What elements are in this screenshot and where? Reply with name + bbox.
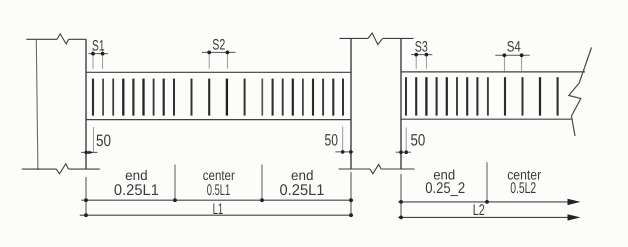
- dimension 50 middle-left: [335, 127, 353, 154]
- L1 overall dimension line: [80, 213, 353, 217]
- L1 zone separator tick at beam start: [85, 177, 87, 217]
- beam 2 stirrups center zone: [505, 77, 558, 115]
- dimension S1: [89, 50, 109, 69]
- L2 zone separator tick at beam start: [400, 174, 402, 219]
- left support bottom line: [22, 168, 57, 170]
- left support right edge: [85, 39, 87, 169]
- svg-text:50: 50: [325, 132, 339, 150]
- svg-text:0.25_2: 0.25_2: [425, 180, 465, 197]
- dimension 50 middle-right: [396, 127, 411, 154]
- L1 zone separator tick 1: [174, 165, 176, 202]
- break mark bottom-left: [56, 164, 68, 174]
- break mark top-left: [57, 34, 69, 44]
- dimension 50 left: [81, 127, 98, 154]
- left support top line: [26, 38, 57, 40]
- middle support bottom line: [339, 168, 371, 170]
- L1 zone separator tick at beam end: [350, 172, 352, 217]
- left support left edge: [36, 39, 38, 170]
- beam 1 stirrups left end zone: [93, 79, 174, 116]
- L2 zone separator tick: [486, 162, 488, 203]
- beam 2 stirrups end zone: [406, 77, 488, 115]
- svg-text:S2: S2: [212, 36, 225, 53]
- svg-text:S3: S3: [415, 38, 428, 55]
- dimension S2: [202, 51, 236, 69]
- L2 overall dimension line: [398, 214, 580, 220]
- dimension S3: [411, 53, 432, 69]
- beam 2 top edge: [401, 71, 585, 73]
- left support bottom line right part: [69, 168, 100, 170]
- dimension S4: [495, 53, 529, 71]
- middle support left edge: [350, 38, 352, 169]
- middle support top line: [340, 37, 369, 39]
- middle support bottom line right part: [381, 168, 414, 170]
- L2 zone dimension line: [398, 199, 580, 205]
- break mark top-middle: [368, 33, 383, 45]
- middle support top line right part: [383, 37, 414, 39]
- svg-text:S4: S4: [507, 38, 521, 55]
- svg-text:50: 50: [96, 132, 111, 150]
- svg-text:0.5L2: 0.5L2: [510, 180, 536, 197]
- beam 1 stirrups center zone: [192, 79, 263, 116]
- L1 zone separator tick 2: [261, 165, 263, 202]
- svg-text:L2: L2: [473, 202, 485, 219]
- beam 1 top edge: [86, 71, 351, 73]
- break mark bottom-middle: [370, 164, 381, 173]
- svg-text:0.25L1: 0.25L1: [280, 182, 325, 199]
- svg-text:0.25L1: 0.25L1: [114, 182, 159, 199]
- svg-text:L1: L1: [213, 201, 224, 218]
- L1 zone dimension line: [82, 198, 354, 202]
- beam 1 stirrups right end zone: [273, 79, 343, 116]
- svg-text:center: center: [203, 167, 235, 183]
- svg-text:50: 50: [411, 132, 426, 150]
- svg-text:S1: S1: [92, 37, 105, 54]
- svg-text:end: end: [291, 167, 314, 183]
- svg-text:0.5L1: 0.5L1: [207, 182, 231, 199]
- beam 2 bottom edge: [401, 118, 573, 120]
- middle support right edge: [400, 38, 402, 169]
- left support top line right part: [69, 38, 86, 40]
- break line right (cut mark): [569, 48, 592, 137]
- svg-text:end: end: [125, 167, 148, 183]
- beam 1 bottom edge: [86, 119, 351, 121]
